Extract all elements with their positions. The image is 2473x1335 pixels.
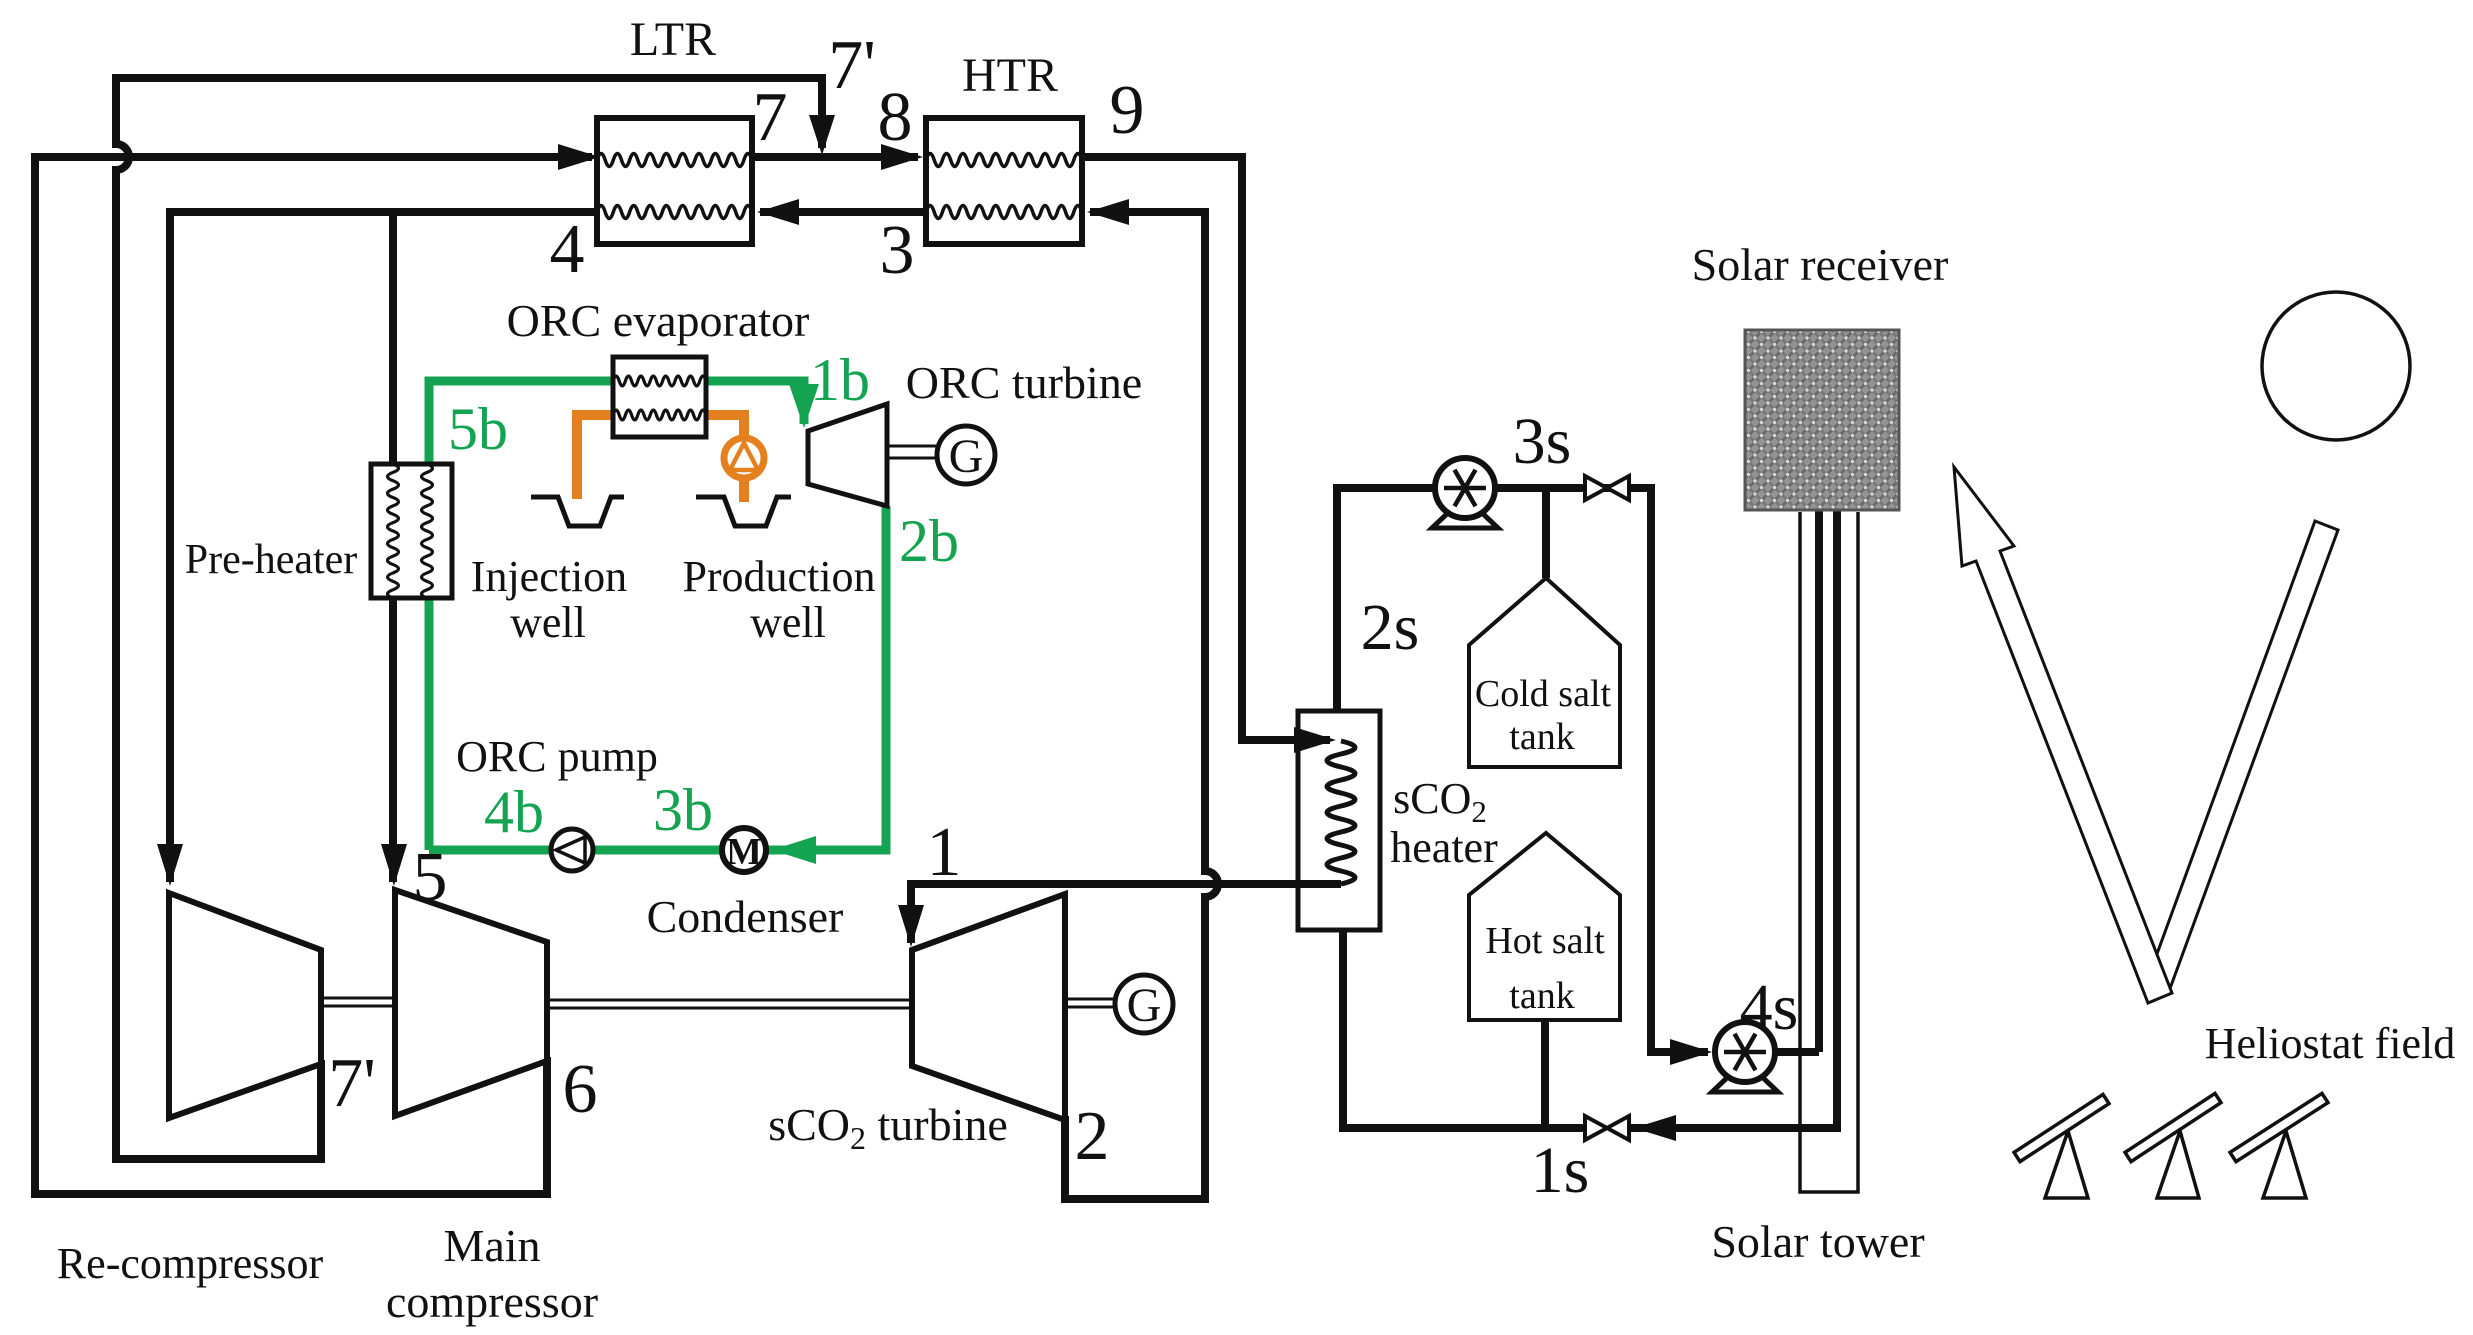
arrowhead into HTR (stream 8)	[881, 144, 923, 170]
ORC turbine	[808, 404, 887, 506]
wire 1: sCO2 heater outlet to sCO2 turbine inlet	[911, 884, 1341, 943]
sCO2 turbine	[912, 894, 1065, 1120]
ORC evaporator top coil	[613, 376, 706, 386]
svg-text:7: 7	[753, 79, 788, 156]
HTR cold side coil	[926, 206, 1082, 219]
arrowhead stream 1 into sCO2 turbine	[898, 905, 924, 947]
sCO2 heater coil	[1327, 741, 1355, 884]
svg-text:Cold salt: Cold salt	[1475, 673, 1612, 715]
svg-text:compressor: compressor	[386, 1276, 598, 1327]
svg-text:4s: 4s	[1740, 971, 1799, 1044]
wire 4-5: branch through pre-heater to main compressor	[389, 212, 397, 882]
svg-text:G: G	[1127, 979, 1162, 1032]
pre-heater coil (sCO2 side)	[388, 464, 399, 598]
svg-text:tank: tank	[1509, 975, 1574, 1017]
svg-text:Main: Main	[443, 1220, 540, 1271]
arrowhead into LTR right (stream 3-4)	[757, 199, 799, 225]
wire 6: main compressor outlet to LTR inlet	[35, 157, 592, 1194]
svg-text:5b: 5b	[448, 396, 508, 462]
svg-text:4: 4	[550, 211, 585, 288]
ORC evaporator bottom coil	[613, 410, 706, 420]
arrowhead into salt pump 4s	[1670, 1039, 1712, 1065]
arrowhead into HTR right (stream 2-3)	[1087, 199, 1129, 225]
svg-text:6: 6	[563, 1051, 598, 1128]
cold salt tank	[1469, 578, 1620, 767]
svg-text:7': 7'	[328, 1045, 376, 1122]
wire 2s: sCO2 heater to salt pump 3s	[1337, 488, 1434, 711]
wire 4: LTR exit to re-compressor	[170, 212, 600, 882]
svg-text:ORC turbine: ORC turbine	[906, 357, 1142, 408]
svg-text:sCO2 turbine: sCO2 turbine	[768, 1099, 1008, 1156]
svg-text:4b: 4b	[484, 779, 544, 845]
heliostat 2	[2157, 1131, 2199, 1198]
arrowhead stream 5 into main compressor	[381, 844, 407, 886]
salt pump 3s	[1432, 510, 1498, 528]
svg-text:tank: tank	[1509, 716, 1574, 758]
svg-text:1s: 1s	[1531, 1134, 1590, 1207]
wire 7prime: re-compressor outlet to junction 7prime between LTR and HTR	[116, 78, 822, 1159]
pipe: hot salt tank to wire 1s	[1541, 1020, 1549, 1128]
svg-text:1: 1	[927, 814, 962, 891]
solar receiver	[1745, 330, 1899, 510]
svg-text:3s: 3s	[1513, 405, 1572, 478]
wire 3: sCO2 turbine exhaust to HTR	[1065, 212, 1218, 1199]
main compressor	[395, 890, 547, 1116]
pipe: cold salt riser inside tower	[1815, 510, 1823, 1052]
svg-text:1b: 1b	[810, 347, 870, 413]
LTR hot side coil	[597, 154, 752, 167]
wire: production well pump to ORC evaporator	[706, 415, 744, 502]
geothermal production pump (orange)	[724, 438, 764, 478]
pipe: hot salt downcomer and wire 1s to valve	[1631, 510, 1837, 1128]
svg-text:2: 2	[1075, 1098, 1110, 1175]
sCO2 heater box	[1298, 711, 1380, 930]
LTR cold side coil	[597, 206, 752, 219]
hot salt tank	[1469, 833, 1620, 1020]
light beam from sun to heliostat	[2146, 521, 2338, 994]
wire 1s: valve to sCO2 heater bottom	[1343, 930, 1585, 1128]
svg-text:3: 3	[880, 212, 915, 289]
svg-text:heater: heater	[1390, 823, 1498, 872]
pre-heater box	[371, 464, 452, 598]
arrowhead stream 1s into valve	[1634, 1115, 1676, 1141]
svg-text:well: well	[750, 598, 826, 647]
arrowhead stream 4 into re-compressor	[157, 844, 183, 886]
svg-text:Injection: Injection	[471, 552, 627, 601]
wire 1b: ORC evaporator to ORC turbine	[706, 381, 804, 424]
svg-text:Heliostat field: Heliostat field	[2205, 1019, 2456, 1068]
svg-text:7': 7'	[828, 27, 876, 104]
sun	[2262, 292, 2410, 440]
svg-text:well: well	[510, 598, 586, 647]
pipe: cold salt tank to wire 2s-3s	[1542, 488, 1550, 578]
wire 5b: pre-heater to ORC evaporator	[429, 381, 613, 850]
salt pump 4s	[1712, 1074, 1778, 1092]
wire 2b-3b-4b: ORC turbine through condenser and pump back	[429, 506, 886, 850]
svg-text:2b: 2b	[899, 508, 959, 574]
svg-text:ORC pump: ORC pump	[456, 732, 658, 781]
svg-text:2s: 2s	[1361, 591, 1420, 664]
svg-text:Condenser: Condenser	[647, 891, 844, 942]
HTR hot side coil	[926, 154, 1082, 167]
heliostat 1	[2045, 1131, 2088, 1198]
generator G (sCO2)	[1115, 975, 1173, 1033]
arrowhead stream 9 into sCO2 heater	[1294, 727, 1336, 753]
shaft: main compressor to sCO2 turbine	[547, 1000, 912, 1008]
svg-text:LTR: LTR	[630, 13, 716, 66]
svg-text:5: 5	[413, 839, 448, 916]
valve after 3s	[1585, 476, 1607, 500]
ORC pump symbol	[551, 829, 593, 871]
arrowhead stream 7prime joining wire	[809, 115, 835, 155]
svg-text:Production: Production	[682, 552, 875, 601]
solar tower outline	[1800, 512, 1858, 1192]
green arrowhead 1b into ORC turbine	[789, 384, 819, 428]
svg-text:Hot salt: Hot salt	[1485, 920, 1605, 962]
shaft: sCO2 turbine to generator	[1065, 999, 1116, 1007]
svg-text:Pre-heater: Pre-heater	[185, 537, 358, 583]
reflected beam with arrow to receiver	[1954, 467, 2172, 1003]
heat exchanger HTR	[926, 118, 1082, 244]
production well	[696, 497, 791, 526]
svg-text:3b: 3b	[653, 777, 713, 843]
shaft: re-compressor to main compressor	[321, 998, 395, 1006]
pre-heater coil (ORC side)	[422, 464, 433, 598]
wire 3-4: HTR to LTR low temperature side	[760, 208, 926, 216]
svg-text:HTR: HTR	[962, 49, 1058, 102]
condenser motor M	[722, 828, 766, 872]
svg-text:G: G	[949, 430, 984, 483]
wire 9: HTR outlet to sCO2 heater	[1082, 157, 1330, 740]
arrowhead into LTR (stream 6)	[558, 144, 600, 170]
svg-text:Re-compressor: Re-compressor	[57, 1239, 324, 1288]
svg-text:ORC evaporator: ORC evaporator	[507, 295, 810, 346]
wire 3s: salt pump to valve and down to pump 4s	[1496, 488, 1708, 1052]
injection well	[531, 497, 624, 526]
svg-text:M: M	[726, 831, 762, 873]
re-compressor	[169, 893, 321, 1118]
svg-text:9: 9	[1110, 72, 1145, 149]
shaft: ORC turbine to generator	[887, 446, 938, 458]
svg-text:Solar tower: Solar tower	[1711, 1216, 1924, 1267]
generator G (ORC)	[937, 426, 995, 484]
valve 1s	[1585, 1116, 1607, 1140]
wire salt riser: pump 4s to solar tower pipe	[1777, 1048, 1819, 1056]
heliostat 3	[2263, 1131, 2306, 1198]
svg-text:Solar receiver: Solar receiver	[1692, 239, 1949, 290]
wire: ORC evaporator to injection well	[577, 415, 613, 499]
svg-text:sCO2: sCO2	[1393, 774, 1487, 829]
heat exchanger LTR	[597, 118, 752, 244]
svg-text:8: 8	[878, 79, 913, 156]
ORC evaporator box	[613, 357, 706, 437]
wire 7-8: LTR to HTR hot-side	[752, 153, 918, 161]
green arrowhead into condenser	[772, 836, 816, 864]
